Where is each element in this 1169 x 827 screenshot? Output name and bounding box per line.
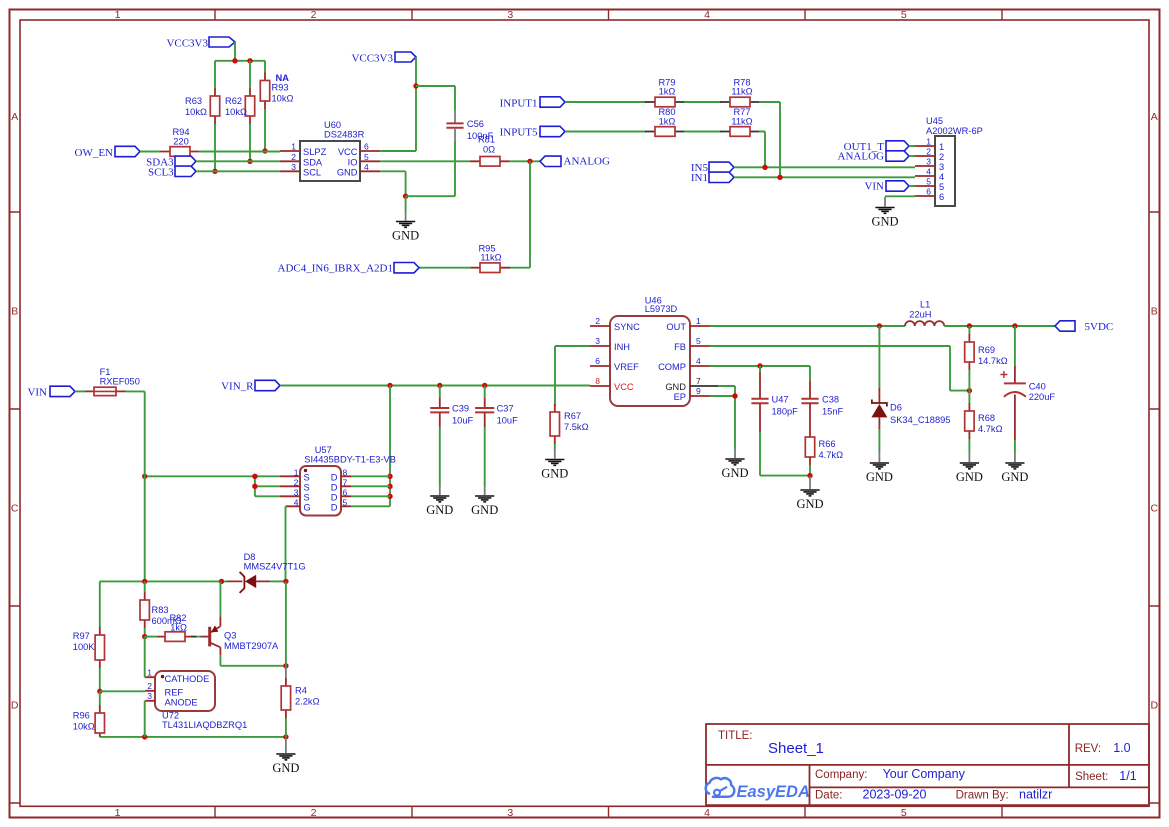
wire R66 stub: [809, 457, 811, 465]
svg-text:3: 3: [595, 336, 600, 346]
wire INH to R67: [555, 346, 590, 406]
svg-text:D: D: [331, 472, 338, 482]
svg-text:D: D: [331, 482, 338, 492]
svg-text:3: 3: [294, 487, 299, 497]
svg-text:GND: GND: [871, 215, 898, 229]
svg-text:10uF: 10uF: [452, 415, 474, 425]
ground R68: [956, 452, 983, 484]
junction: [283, 579, 288, 584]
svg-text:FB: FB: [674, 342, 686, 352]
svg-text:4.7kΩ: 4.7kΩ: [978, 424, 1003, 434]
svg-text:A: A: [11, 111, 18, 123]
svg-text:GND: GND: [392, 229, 419, 243]
svg-text:TL431LIAQDBZRQ1: TL431LIAQDBZRQ1: [162, 720, 247, 730]
wire to R69: [968, 326, 970, 334]
svg-text:GND: GND: [665, 382, 686, 392]
svg-text:GND: GND: [721, 466, 748, 480]
svg-text:VREF: VREF: [614, 362, 639, 372]
wire EP: [710, 396, 735, 449]
wire R69 low: [968, 370, 970, 391]
inductor L1 22uH: [905, 300, 944, 327]
svg-text:6: 6: [939, 192, 944, 202]
svg-text:5: 5: [926, 177, 931, 187]
junction: [97, 689, 102, 694]
capacitor C40 220uF: [1000, 366, 1055, 440]
ground U60: [392, 211, 419, 243]
svg-text:2: 2: [939, 152, 944, 162]
svg-text:7.5kΩ: 7.5kΩ: [564, 422, 589, 432]
power flag VCC3V3 (U60): [351, 52, 416, 65]
svg-text:R62: R62: [225, 96, 242, 106]
wire VCC pin to flag: [380, 57, 416, 151]
svg-text:R4: R4: [295, 686, 307, 696]
junction: [967, 323, 972, 328]
svg-text:10kΩ: 10kΩ: [225, 107, 247, 117]
capacitor C38: [801, 380, 843, 416]
svg-text:9: 9: [696, 386, 701, 396]
svg-text:14.7kΩ: 14.7kΩ: [978, 356, 1008, 366]
svg-text:15nF: 15nF: [822, 407, 844, 417]
junction: [807, 473, 812, 478]
wire D row1: [351, 475, 390, 477]
ground U45: [871, 197, 898, 229]
resistor R77: [720, 107, 760, 136]
wire Q3 collector: [220, 655, 286, 666]
junction: [437, 383, 442, 388]
wire to U47: [759, 366, 761, 372]
resistor R97: [73, 627, 105, 668]
junction: [142, 474, 147, 479]
wire cathode: [144, 637, 147, 678]
wire D row2: [351, 485, 390, 487]
svg-text:220: 220: [173, 136, 189, 146]
svg-text:VCC3V3: VCC3V3: [166, 38, 208, 50]
svg-text:F1: F1: [100, 367, 111, 377]
svg-text:1/1: 1/1: [1119, 769, 1136, 783]
wire S link: [254, 476, 256, 496]
svg-text:2023-09-20: 2023-09-20: [863, 788, 927, 802]
port SCL3: [148, 166, 196, 178]
wire R67 gnd: [554, 444, 556, 450]
svg-text:INPUT1: INPUT1: [500, 97, 538, 109]
port IN5: [691, 162, 734, 174]
resistor R66: [805, 437, 843, 460]
junction: [252, 474, 257, 479]
U72 pin labels: [147, 668, 209, 708]
svg-text:IO: IO: [348, 157, 358, 167]
port INPUT1: [500, 97, 565, 110]
wire OUT: [710, 325, 905, 327]
wire IN5: [734, 166, 915, 168]
svg-text:Company:: Company:: [815, 769, 867, 781]
svg-text:Your Company: Your Company: [883, 767, 966, 781]
svg-text:2: 2: [294, 477, 299, 487]
resistor R83: [140, 592, 182, 628]
svg-text:2: 2: [311, 9, 317, 21]
resistor R94: [160, 127, 200, 156]
U57 right pins: [341, 476, 351, 506]
junction: [247, 159, 252, 164]
junction: [142, 634, 147, 639]
op-amp U46 L5973D: [610, 296, 690, 407]
wire VCC3V3 bus: [215, 60, 265, 62]
op-amp U72 TL431LIAQDBZRQ1: [155, 671, 247, 730]
svg-text:GND: GND: [272, 761, 299, 775]
svg-text:5: 5: [939, 182, 944, 192]
junction: [762, 165, 767, 170]
svg-text:10kΩ: 10kΩ: [73, 722, 95, 732]
svg-text:10kΩ: 10kΩ: [272, 94, 294, 104]
svg-text:SCL: SCL: [303, 167, 321, 177]
wire C56 to gnd net: [454, 140, 456, 196]
wire row581 left: [100, 580, 227, 582]
svg-text:R83: R83: [152, 605, 169, 615]
wire C38-R66: [809, 408, 811, 437]
wire VIN: [75, 390, 85, 392]
svg-text:OW_EN: OW_EN: [75, 147, 114, 159]
svg-text:3: 3: [147, 691, 152, 701]
U45 pins: [915, 146, 935, 196]
wire R79-R78: [684, 101, 721, 103]
svg-text:REF: REF: [165, 687, 184, 697]
port SDA3: [146, 156, 196, 168]
junction: [262, 148, 267, 153]
svg-text:4: 4: [926, 167, 931, 177]
svg-text:4: 4: [939, 172, 944, 182]
svg-text:2: 2: [595, 316, 600, 326]
wire IO: [380, 160, 470, 162]
wire D6 gnd: [878, 429, 880, 452]
svg-text:SYNC: SYNC: [614, 322, 640, 332]
wire SDA3: [196, 160, 280, 162]
svg-text:COMP: COMP: [658, 362, 686, 372]
svg-text:1: 1: [147, 668, 152, 678]
resistor R68: [965, 403, 1003, 439]
svg-text:5: 5: [901, 9, 907, 21]
svg-text:U60: U60: [324, 120, 341, 130]
svg-text:7: 7: [696, 376, 701, 386]
svg-text:1: 1: [926, 137, 931, 147]
svg-text:1kΩ: 1kΩ: [170, 623, 187, 633]
svg-text:R63: R63: [185, 96, 202, 106]
svg-text:D: D: [331, 492, 338, 502]
junction: [777, 175, 782, 180]
svg-text:1: 1: [291, 142, 296, 152]
wire to D6: [878, 326, 880, 388]
svg-text:D8: D8: [244, 552, 256, 562]
svg-text:R67: R67: [564, 411, 581, 421]
ground C37: [471, 487, 498, 517]
wire R80-R77: [684, 131, 721, 133]
junction: [283, 663, 288, 668]
svg-text:4: 4: [364, 162, 369, 172]
resistor R69: [965, 334, 1008, 370]
junction: [527, 159, 532, 164]
junction: [387, 474, 392, 479]
svg-text:U47: U47: [772, 395, 789, 405]
wire Q3 emitter: [219, 581, 221, 616]
svg-text:GND: GND: [541, 467, 568, 481]
wire C37 top: [484, 386, 486, 399]
svg-text:MMSZ4V7T1G: MMSZ4V7T1G: [244, 562, 306, 572]
junction: [482, 383, 487, 388]
svg-text:Date:: Date:: [815, 790, 843, 802]
svg-text:GND: GND: [866, 470, 893, 484]
svg-text:U72: U72: [162, 711, 179, 721]
svg-text:L1: L1: [920, 300, 930, 310]
wire GND7: [718, 386, 735, 396]
svg-text:100K: 100K: [73, 642, 96, 652]
U46 pin labels: [595, 316, 701, 402]
svg-text:C: C: [11, 503, 19, 515]
wire base link: [191, 636, 197, 638]
junction: [212, 169, 217, 174]
svg-text:NA: NA: [276, 73, 290, 83]
wire F1 down: [126, 391, 145, 581]
junction: [283, 734, 288, 739]
svg-text:ANALOG: ANALOG: [564, 156, 610, 168]
svg-text:natilzr: natilzr: [1019, 788, 1052, 802]
junction: [219, 579, 224, 584]
wire SCL3: [196, 170, 280, 172]
svg-text:7: 7: [343, 477, 348, 487]
wire to R68: [968, 391, 970, 403]
wire OW_EN: [140, 151, 160, 153]
svg-text:R68: R68: [978, 413, 995, 423]
svg-text:C40: C40: [1029, 382, 1046, 392]
svg-text:SK34_C18895: SK34_C18895: [890, 415, 950, 425]
svg-text:GND: GND: [471, 503, 498, 517]
svg-text:6: 6: [926, 187, 931, 197]
svg-text:C37: C37: [497, 403, 514, 413]
wire to R93: [264, 61, 266, 73]
svg-text:10uF: 10uF: [497, 415, 519, 425]
svg-text:180pF: 180pF: [772, 407, 799, 417]
svg-text:3: 3: [939, 162, 944, 172]
wire pin6 gnd: [885, 195, 915, 197]
svg-text:CATHODE: CATHODE: [165, 674, 210, 684]
svg-text:U45: U45: [926, 116, 943, 126]
resistor R93: [260, 73, 293, 110]
svg-text:G: G: [304, 502, 311, 512]
transistor Q3 MMBT2907A: [201, 616, 280, 655]
port INPUT5: [500, 126, 565, 138]
svg-text:Sheet:: Sheet:: [1075, 771, 1108, 783]
svg-text:1.0: 1.0: [1113, 741, 1130, 755]
wire R93 to SLPZ: [264, 109, 266, 151]
svg-text:5VDC: 5VDC: [1085, 321, 1114, 333]
svg-text:4: 4: [294, 497, 299, 507]
wire R83 low: [144, 628, 146, 637]
U60 pin labels: [291, 142, 369, 178]
svg-text:8: 8: [343, 467, 348, 477]
svg-text:8: 8: [595, 376, 600, 386]
resistor R62: [225, 88, 255, 124]
svg-text:R81: R81: [478, 135, 495, 145]
ground C40: [1001, 452, 1028, 484]
svg-text:4: 4: [704, 807, 710, 819]
svg-text:2: 2: [311, 807, 317, 819]
svg-text:2: 2: [291, 152, 296, 162]
port VIN_R: [221, 380, 280, 392]
transistor U57 SI4435BDY-T1-E3-VB: [300, 445, 396, 516]
U60 pins 1-3: [280, 151, 300, 171]
U57 pin labels: [294, 467, 348, 512]
svg-text:OUT: OUT: [666, 322, 686, 332]
svg-text:VIN: VIN: [27, 387, 47, 399]
junction: [877, 323, 882, 328]
svg-text:ANALOG: ANALOG: [838, 151, 884, 163]
junction: [732, 393, 737, 398]
wire R4 top: [285, 666, 287, 678]
ground U46: [721, 449, 748, 480]
op-amp U60 DS2483R: [300, 120, 365, 181]
svg-text:EP: EP: [674, 392, 686, 402]
svg-text:5: 5: [343, 497, 348, 507]
U60 pins 4-6: [360, 151, 380, 171]
wire S row3: [255, 495, 280, 497]
wire zener bus: [285, 581, 287, 665]
ground D6: [866, 452, 893, 484]
resistor R96: [73, 705, 105, 737]
port OUT1_T: [844, 141, 909, 153]
junction: [387, 383, 392, 388]
svg-text:6: 6: [364, 142, 369, 152]
svg-text:Q3: Q3: [224, 631, 236, 641]
wire to R83: [144, 581, 146, 592]
junction: [252, 484, 257, 489]
svg-text:R82: R82: [169, 613, 186, 623]
junction: [142, 734, 147, 739]
svg-text:C39: C39: [452, 403, 469, 413]
svg-text:R96: R96: [73, 711, 90, 721]
resistor R4: [281, 678, 319, 718]
wire gnd joint: [406, 195, 455, 197]
ground main: [272, 738, 299, 776]
wire L1 out: [944, 325, 1055, 327]
svg-text:SI4435BDY-T1-E3-VB: SI4435BDY-T1-E3-VB: [304, 455, 396, 465]
capacitor C39: [430, 398, 473, 427]
junction: [757, 363, 762, 368]
port 5VDC: [1055, 321, 1113, 333]
svg-text:R97: R97: [73, 631, 90, 641]
svg-text:2.2kΩ: 2.2kΩ: [295, 697, 320, 707]
wire R81 out: [509, 160, 540, 162]
wire FB: [710, 346, 969, 391]
svg-text:22uH: 22uH: [909, 310, 931, 320]
svg-text:DS2483R: DS2483R: [324, 130, 365, 140]
svg-text:B: B: [1151, 306, 1158, 318]
wire R77 down: [759, 132, 765, 168]
wire to R63: [214, 61, 216, 88]
svg-text:C38: C38: [822, 395, 839, 405]
port ANALOG (conn): [838, 151, 909, 163]
svg-text:1: 1: [294, 467, 299, 477]
U72 pins: [145, 677, 155, 701]
svg-text:SCL3: SCL3: [148, 166, 174, 178]
wire D row4: [351, 505, 390, 507]
diode D6 SK34_C18895: [871, 388, 950, 429]
ground R67: [541, 450, 568, 481]
svg-text:5: 5: [696, 336, 701, 346]
svg-text:D: D: [331, 502, 338, 512]
svg-text:11kΩ: 11kΩ: [480, 252, 501, 262]
wire U60 GND: [380, 171, 405, 197]
svg-text:D6: D6: [890, 403, 902, 413]
svg-text:Drawn By:: Drawn By:: [956, 790, 1009, 802]
port VIN (conn): [864, 181, 909, 193]
wire to SLPZ: [199, 151, 280, 153]
title block: [706, 724, 1149, 805]
wire IN1: [734, 176, 915, 178]
svg-text:INH: INH: [614, 342, 630, 352]
wire to C56: [416, 86, 455, 111]
svg-text:6: 6: [595, 356, 600, 366]
wire to R82: [145, 636, 157, 638]
U57 left pins: [280, 476, 300, 506]
svg-text:GND: GND: [337, 167, 358, 177]
svg-text:4: 4: [696, 356, 701, 366]
port ADC4_IN6_IBRX_A2D1: [278, 263, 420, 275]
svg-text:D: D: [11, 700, 19, 712]
svg-text:GND: GND: [796, 497, 823, 511]
svg-text:R69: R69: [978, 345, 995, 355]
ground C39: [426, 487, 453, 517]
svg-text:U57: U57: [315, 445, 332, 455]
connector U45 A2002WR-6P: [926, 116, 983, 206]
svg-text:2: 2: [926, 147, 931, 157]
wire anode: [144, 701, 147, 737]
resistor R63: [185, 88, 220, 124]
svg-text:2: 2: [147, 681, 152, 691]
wire to C40: [1014, 326, 1016, 366]
svg-text:TITLE:: TITLE:: [718, 730, 753, 742]
svg-text:ADC4_IN6_IBRX_A2D1: ADC4_IN6_IBRX_A2D1: [278, 263, 394, 275]
svg-text:1: 1: [939, 142, 944, 152]
svg-text:B: B: [11, 306, 18, 318]
svg-text:GND: GND: [1001, 470, 1028, 484]
junction: [413, 83, 418, 88]
wire bottom row: [100, 736, 286, 738]
diode D8 MMSZ4V7T1G: [227, 552, 306, 593]
port VIN: [27, 386, 75, 399]
resistor R80: [645, 107, 685, 136]
EasyEDA logo: [706, 778, 810, 801]
svg-text:VCC: VCC: [614, 382, 634, 392]
svg-text:INPUT5: INPUT5: [500, 127, 538, 139]
svg-text:11kΩ: 11kΩ: [731, 86, 752, 96]
svg-text:C: C: [1151, 503, 1159, 515]
junction: [403, 194, 408, 199]
resistor R82: [157, 613, 193, 641]
svg-text:D: D: [1151, 700, 1159, 712]
junction: [1012, 323, 1017, 328]
svg-text:A2002WR-6P: A2002WR-6P: [926, 126, 983, 136]
wire INPUT5: [565, 131, 646, 133]
port IN1: [691, 172, 734, 184]
wire S row1: [145, 475, 280, 477]
wire to R62: [249, 61, 251, 88]
svg-text:4.7kΩ: 4.7kΩ: [819, 450, 844, 460]
capacitor U47: [751, 372, 798, 432]
svg-text:GND: GND: [426, 503, 453, 517]
svg-text:S: S: [304, 472, 310, 482]
svg-text:IN1: IN1: [691, 172, 708, 184]
wire VCC3V3 drop: [234, 42, 236, 61]
wire ANALOG2: [909, 155, 915, 157]
wire REF: [100, 690, 146, 692]
junction: [387, 494, 392, 499]
